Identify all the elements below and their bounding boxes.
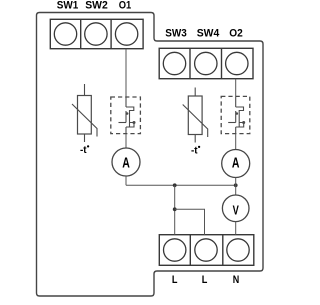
ammeter A2 (222, 150, 250, 178)
junction node 2 (234, 183, 238, 187)
terminal block top-left (50, 19, 143, 48)
wire box2 to ammeter2 (235, 134, 237, 150)
svg-text:A: A (122, 156, 130, 172)
terminal SW4 (195, 52, 217, 74)
switch module box 2 (dashed) (221, 96, 250, 133)
terminal O1 (115, 23, 137, 45)
thermistor RT2 diagonal (183, 105, 208, 138)
MOSFET Q2 (228, 96, 244, 133)
svg-text:-t: -t (80, 144, 87, 156)
svg-text:SW2: SW2 (85, 0, 108, 12)
svg-text:L: L (172, 274, 178, 286)
thermistor RT2 body (188, 96, 202, 135)
terminal SW3 (163, 52, 185, 74)
svg-text:SW4: SW4 (197, 27, 220, 39)
terminal L2 (195, 239, 217, 261)
thermistor RT1 top lead (84, 84, 86, 96)
wire ammeter2 to voltmeter (235, 178, 237, 196)
wire box1 to ammeter1 (125, 134, 127, 148)
terminal L1 (164, 239, 186, 261)
svg-text:V: V (233, 203, 240, 217)
svg-text:O1: O1 (119, 0, 132, 12)
thermistor RT2 bottom lead (194, 135, 196, 143)
wire ammeter1 down (125, 176, 127, 185)
junction node 1 (173, 183, 177, 187)
svg-text:L: L (202, 274, 208, 286)
thermistor RT2 top lead (194, 88, 196, 97)
wire bus horizontal (126, 184, 236, 186)
terminal block bottom (159, 235, 254, 266)
svg-text:O2: O2 (229, 27, 243, 39)
wire voltmeter to N (235, 222, 237, 235)
terminal SW1 (54, 23, 76, 45)
MOSFET Q1 (119, 97, 135, 134)
thermistor RT1 diagonal (72, 104, 97, 137)
svg-text:A: A (232, 156, 240, 172)
junction node 3 (173, 207, 177, 211)
terminal N (227, 239, 249, 261)
wire bus to L1 (174, 185, 176, 234)
voltmeter V1 (222, 195, 249, 222)
terminal block top-right (159, 48, 253, 78)
svg-text:SW3: SW3 (165, 27, 187, 39)
thermistor RT1 bottom lead (84, 134, 86, 142)
wire O2 to switch box (235, 79, 237, 97)
ammeter A1 (112, 148, 140, 176)
wire O1 to switch box (125, 49, 127, 97)
terminal SW2 (85, 23, 107, 45)
svg-text:-t: -t (191, 145, 198, 157)
svg-text:SW1: SW1 (57, 0, 79, 12)
device outline (37, 13, 264, 297)
terminal O2 (226, 52, 248, 74)
switch module box 1 (dashed) (111, 97, 141, 134)
wire branch to L2 (175, 209, 205, 234)
svg-text:N: N (233, 274, 240, 286)
thermistor RT1 body (78, 96, 92, 135)
